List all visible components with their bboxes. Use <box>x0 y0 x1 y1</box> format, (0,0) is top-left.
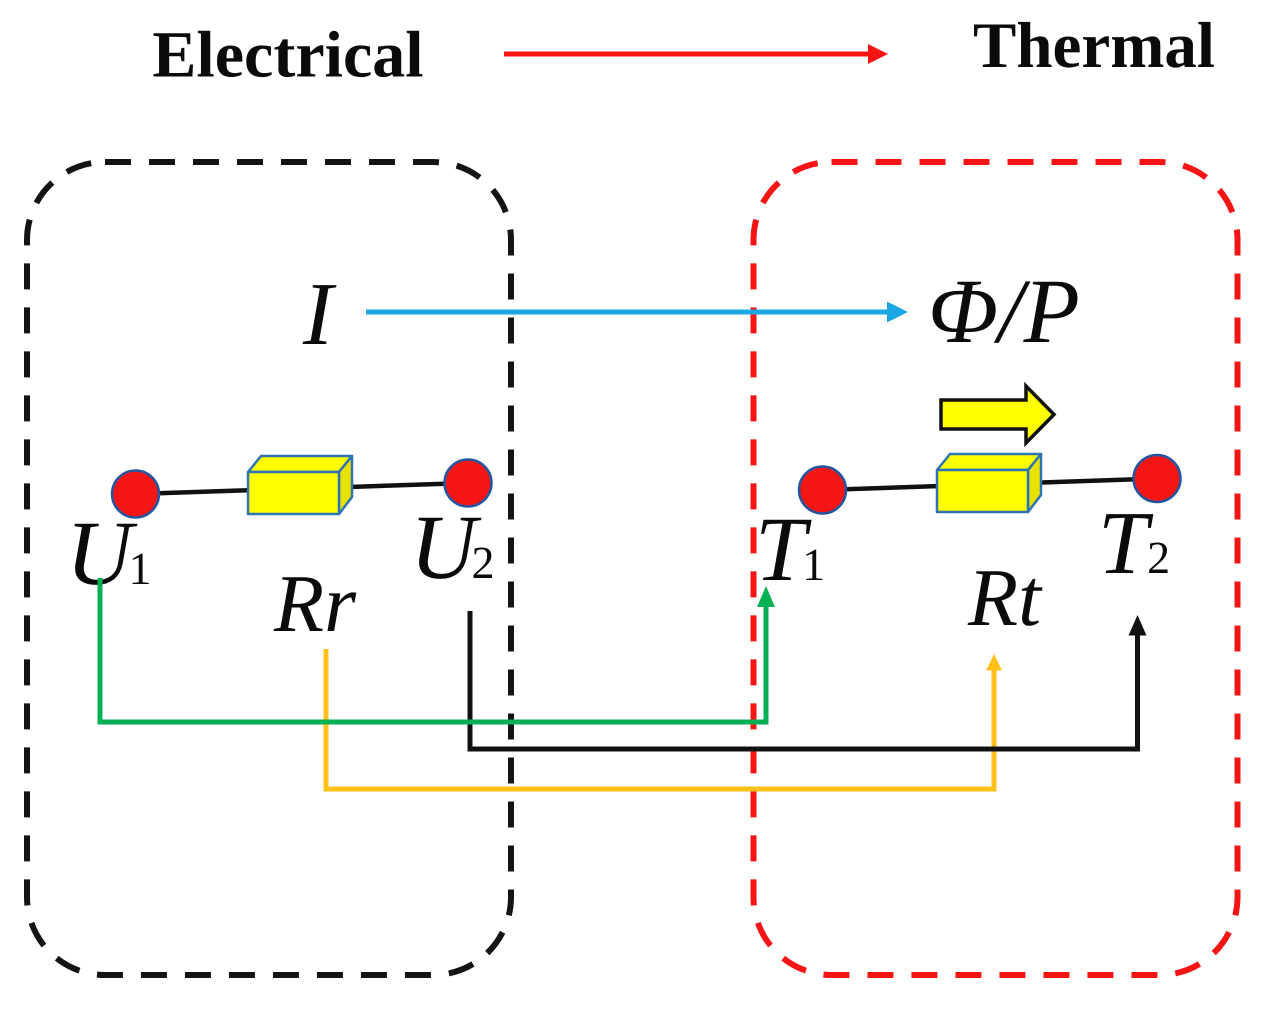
electrical domain boundary (black dashed rounded box) <box>27 162 511 975</box>
svg-text:I: I <box>302 265 337 364</box>
svg-text:Thermal: Thermal <box>973 10 1215 82</box>
svg-text:Electrical: Electrical <box>152 19 423 92</box>
connector U2 to T2 (black) <box>470 611 1147 749</box>
svg-text:Rr: Rr <box>273 558 357 649</box>
node T2 (red circle) <box>1134 455 1181 502</box>
heat flow block arrow (yellow) <box>941 386 1054 443</box>
wire T1-T2 <box>823 479 1157 491</box>
thermal domain boundary (red dashed rounded box) <box>754 162 1238 975</box>
resistor Rr (yellow 3D box) <box>248 456 352 514</box>
svg-text:U2: U2 <box>410 496 494 598</box>
svg-text:Rt: Rt <box>967 552 1043 643</box>
arrow I to Phi/P (cyan) <box>366 302 908 323</box>
resistor Rt (yellow 3D box) <box>937 454 1041 512</box>
connector U1 to T1 (green) <box>100 578 775 722</box>
svg-text:Φ/P: Φ/P <box>928 260 1080 362</box>
node U2 (red circle) <box>445 460 492 507</box>
node T1 (red circle) <box>799 467 846 514</box>
arrow Electrical to Thermal (red) <box>504 44 888 64</box>
wire U1-U2 <box>136 483 468 494</box>
node U1 (red circle) <box>112 471 159 518</box>
svg-text:T2: T2 <box>1098 494 1170 593</box>
connector Rr to Rt (gold) <box>326 649 1002 789</box>
